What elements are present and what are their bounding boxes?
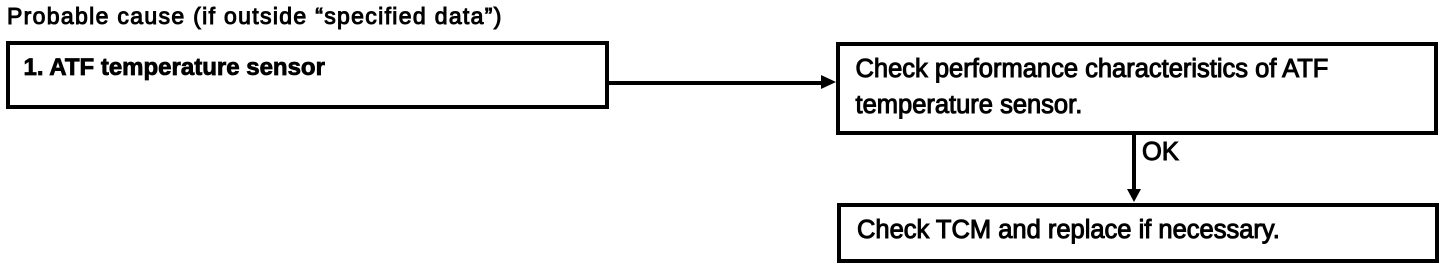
wire: horizontal connector from box1 to box2 — [607, 81, 821, 85]
label: Check performance characteristics of ATF temperature sensor. — [856, 51, 1329, 123]
box: Check TCM and replace if necessary. — [837, 203, 1439, 263]
heading text: Probable cause (if outside "specified data") — [7, 3, 503, 30]
box: Check performance characteristics of ATF temperature sensor. — [836, 42, 1438, 135]
arrowhead: right-pointing into box2 — [821, 75, 836, 89]
label: OK — [1142, 137, 1179, 167]
box: 1. ATF temperature sensor — [6, 41, 609, 109]
wire: vertical connector from box2 to box3 — [1132, 135, 1136, 191]
arrowhead: down-pointing into box3 — [1127, 189, 1141, 202]
label: Check TCM and replace if necessary. — [857, 215, 1280, 245]
label: 1. ATF temperature sensor — [24, 54, 325, 82]
